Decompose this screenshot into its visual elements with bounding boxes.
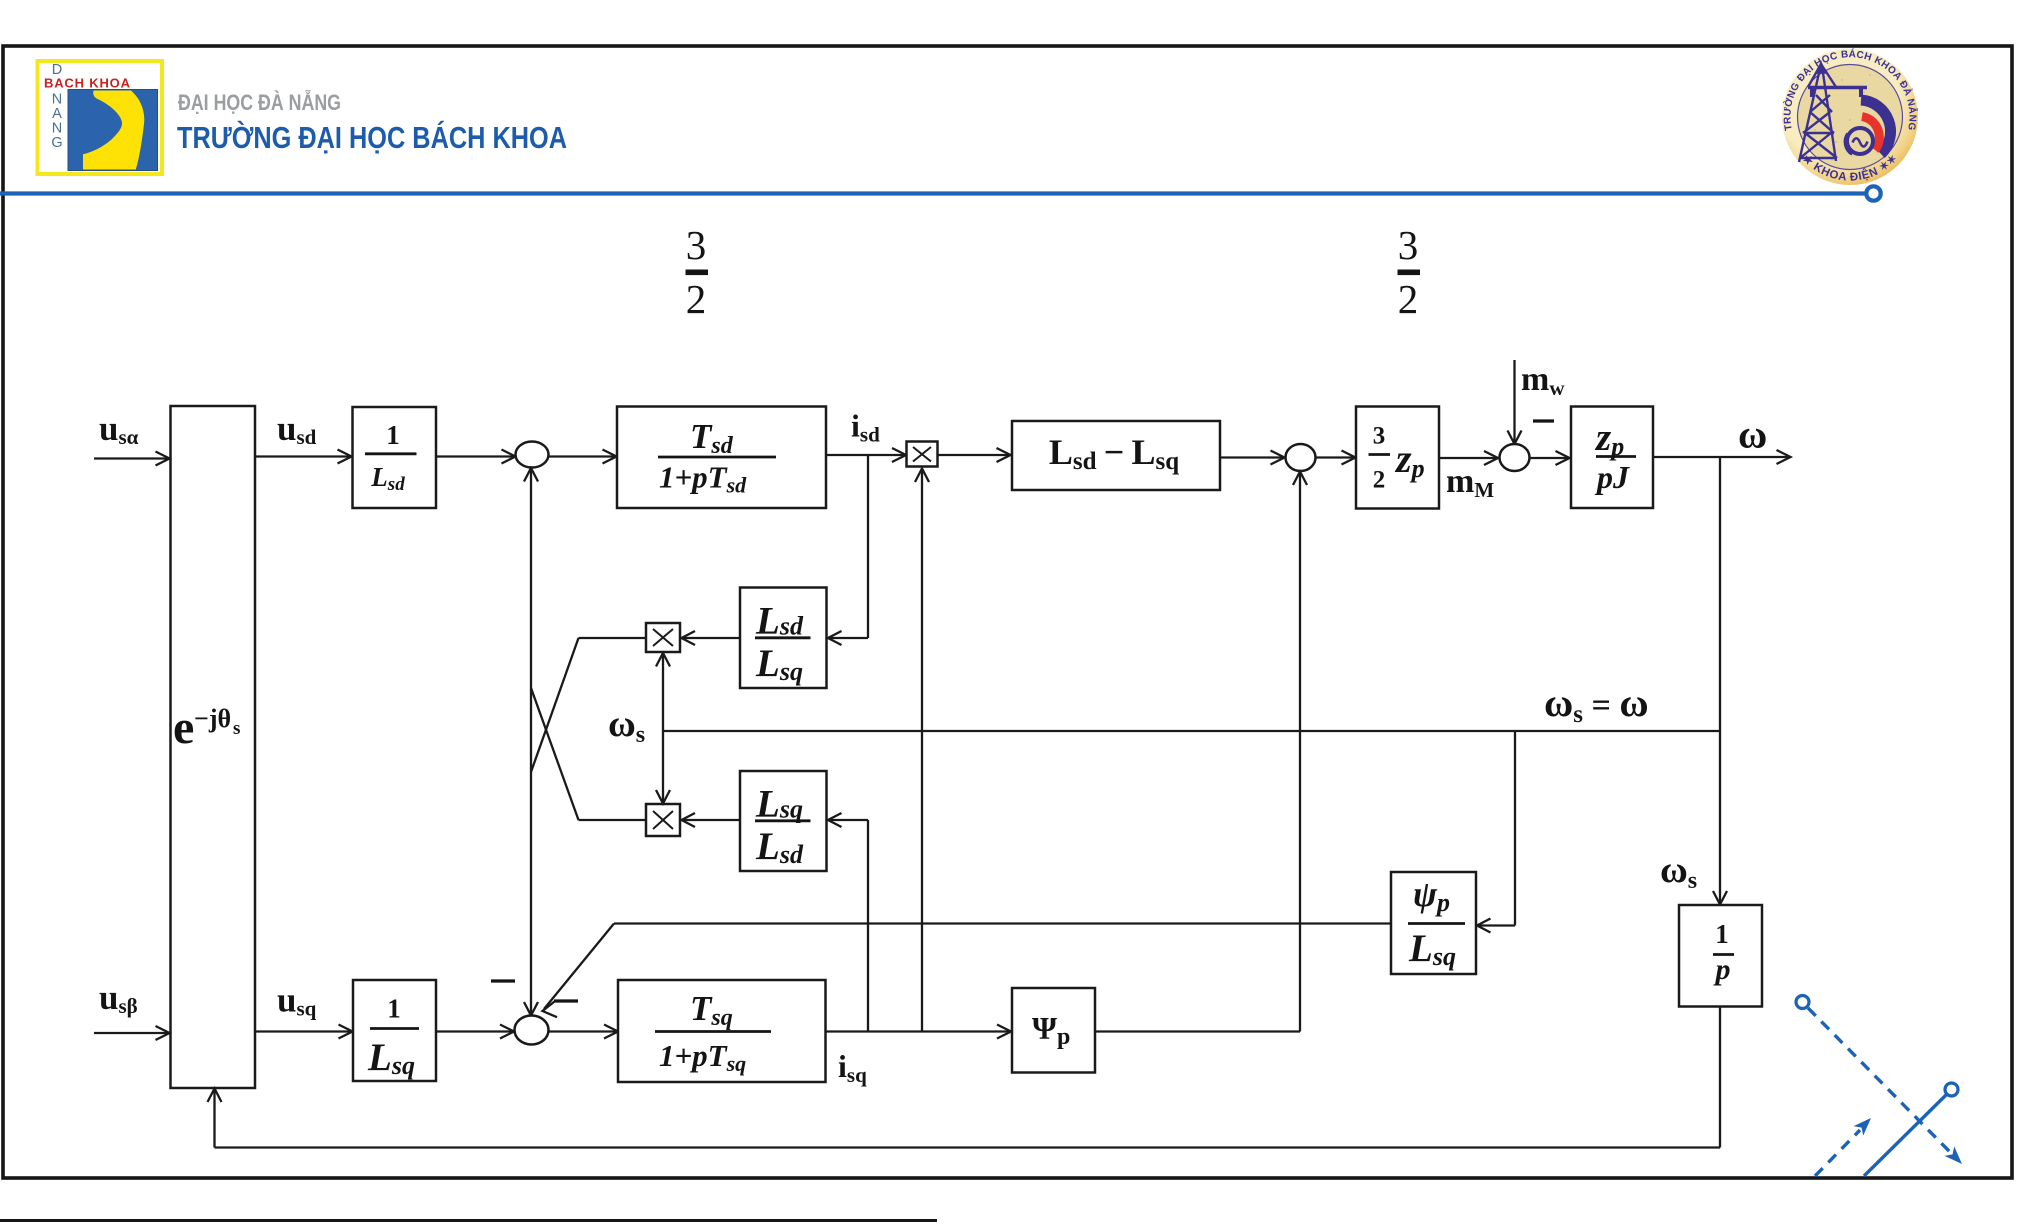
wire Lsd-Lsq to sum S2 bbox=[1220, 451, 1285, 465]
transmission tower drawing bbox=[1799, 62, 1867, 162]
svg-text:BACH KHOA: BACH KHOA bbox=[44, 76, 131, 91]
wire M3 output with diagonal up bbox=[531, 688, 646, 820]
svg-text:ω: ω bbox=[1738, 412, 1767, 457]
wire omega_s = omega line bbox=[663, 730, 1720, 732]
logo letters D A N A N G bbox=[51, 62, 62, 151]
block e^-j.theta.s bbox=[171, 406, 256, 1088]
wire Lsq/Lsd to M3 bbox=[682, 813, 741, 827]
summing node S1 bbox=[516, 442, 549, 468]
svg-text:3: 3 bbox=[686, 222, 707, 268]
blue decoration bottom right bbox=[1796, 996, 1967, 1177]
block Tsd/(1+pTsd) bbox=[617, 407, 826, 509]
svg-text:p: p bbox=[1713, 953, 1731, 986]
block Lsq/Lsd bbox=[740, 771, 827, 871]
summing node S3 bbox=[1500, 444, 1530, 471]
wire M1 to Lsd-Lsq block bbox=[938, 448, 1011, 462]
wire omega down to 1/p bbox=[1713, 457, 1727, 905]
wire 1/Lsd to sum1 bbox=[436, 450, 516, 464]
wire isq line Tsq to psi_p bbox=[826, 1025, 1012, 1039]
svg-text:2: 2 bbox=[686, 276, 707, 322]
svg-text:3: 3 bbox=[1398, 222, 1419, 268]
block Lsd/Lsq bbox=[740, 588, 827, 689]
floating fraction 3/2 left bbox=[686, 222, 709, 322]
blue square of logo bbox=[68, 90, 158, 171]
summing node S4 bbox=[515, 1016, 549, 1045]
svg-text:1: 1 bbox=[387, 994, 401, 1024]
floating fraction 3/2 right bbox=[1398, 222, 1421, 322]
svg-text:ĐẠI HỌC ĐÀ NẴNG: ĐẠI HỌC ĐÀ NẴNG bbox=[178, 90, 341, 115]
multiplier M2 bbox=[646, 623, 680, 652]
block Tsq/(1+pTsq) bbox=[618, 980, 826, 1082]
svg-text:TRƯỜNG ĐẠI HỌC BÁCH KHOA: TRƯỜNG ĐẠI HỌC BÁCH KHOA bbox=[177, 119, 567, 155]
wire M2 output with diagonal down bbox=[531, 638, 646, 772]
multiplier M3 bbox=[646, 804, 680, 836]
svg-text:e: e bbox=[173, 701, 194, 754]
wire Lsd/Lsq to M2 bbox=[682, 631, 741, 645]
minus sign left of S4 bbox=[491, 979, 515, 982]
wire isq branch up into M1 bbox=[915, 469, 929, 1032]
svg-text:G: G bbox=[51, 135, 62, 151]
wire psi_p/Lsq output diagonal into S4 bbox=[543, 924, 1392, 1021]
wire u_sq bbox=[255, 1025, 353, 1039]
wire S1 vertical cross-coupling bbox=[524, 468, 538, 1016]
wire S3 to zp/pJ bbox=[1530, 451, 1570, 465]
wire Tsd to mult M1, junction isd bbox=[826, 448, 906, 462]
svg-text:1: 1 bbox=[1715, 919, 1729, 949]
svg-text:2: 2 bbox=[1398, 276, 1419, 322]
dashed arrow down-right with start circle bbox=[1796, 996, 1809, 1009]
block Lsd - Lsq bbox=[1012, 421, 1220, 490]
svg-text:1: 1 bbox=[386, 420, 400, 450]
svg-text:−jθ: −jθ bbox=[194, 704, 231, 733]
svg-text:pJ: pJ bbox=[1594, 459, 1630, 495]
dashed arrow up-right bbox=[1815, 1130, 1860, 1176]
summing node S2 bbox=[1286, 444, 1316, 471]
block 1/p bbox=[1679, 905, 1762, 1007]
speckle texture bbox=[1814, 74, 1886, 161]
wire S2 to 3/2 zp block bbox=[1316, 451, 1356, 465]
wire isd branch down into Lsd/Lsq bbox=[828, 455, 868, 645]
block 3/2 zp bbox=[1356, 407, 1439, 509]
wire branch to psi_p/Lsq bbox=[1477, 731, 1515, 933]
wire isq branch up into Lsq/Lsd bbox=[828, 813, 868, 1032]
wire omega output bbox=[1653, 450, 1791, 464]
wire psi_p output up into S2 bbox=[1095, 472, 1307, 1032]
svg-text:s: s bbox=[233, 718, 240, 739]
university logo (yellow box) bbox=[38, 61, 163, 174]
wire S4 to Tsq block bbox=[549, 1025, 619, 1039]
block 1/Lsq bbox=[353, 980, 436, 1081]
bottom rule line bbox=[0, 1219, 937, 1222]
wire 1/Lsq to sum S4 bbox=[436, 1025, 514, 1039]
multiplier M1 bbox=[907, 442, 938, 467]
wire input u_s.alpha bbox=[94, 452, 170, 466]
svg-text:ωs = ω: ωs = ω bbox=[1544, 680, 1649, 728]
solid line with end circle bbox=[1864, 1095, 1946, 1176]
header divider blue line bbox=[0, 186, 1881, 200]
svg-text:2: 2 bbox=[1373, 467, 1386, 494]
wire u_sd bbox=[255, 450, 352, 464]
wire omega_s tee to M2 and M3 bbox=[656, 653, 670, 804]
faculty emblem (top right seal) bbox=[1781, 47, 1919, 185]
wire 3/2zp to sum S3, label mM bbox=[1439, 451, 1498, 465]
minus sign right of S4 bbox=[554, 999, 578, 1002]
swirl crescents bbox=[1845, 100, 1891, 155]
block zp/pJ bbox=[1571, 407, 1653, 509]
wire feedback from 1/p to e-block bbox=[208, 1007, 1721, 1148]
block 1/Lsd bbox=[353, 407, 437, 508]
wire input u_s.beta bbox=[94, 1026, 170, 1040]
svg-text:3: 3 bbox=[1373, 423, 1386, 450]
wire m_w input with minus bbox=[1508, 360, 1555, 444]
yellow sail shape bbox=[83, 91, 144, 170]
block psi_p/Lsq bbox=[1391, 872, 1476, 974]
block psi_p (capital) bbox=[1012, 988, 1095, 1073]
wire S1 to Tsd block bbox=[549, 450, 617, 464]
